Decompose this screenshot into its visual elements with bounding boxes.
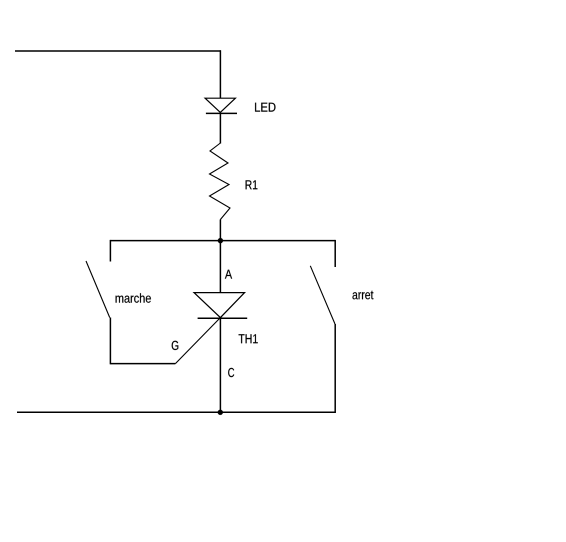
- wire gate horizontal: [110, 363, 175, 365]
- wire mid rail: [110, 240, 335, 242]
- wire mid node to thyristor anode: [219, 241, 221, 293]
- node A label: [225, 270, 232, 279]
- label R1: [246, 180, 258, 189]
- wire top rail: [15, 50, 221, 52]
- wire marche bottom vertical: [109, 318, 111, 365]
- node mid junction: [218, 238, 223, 243]
- label LED: [255, 103, 275, 112]
- wire thyristor gate diagonal: [175, 318, 220, 364]
- wire mid rail right drop: [334, 240, 336, 267]
- wire arret bottom vertical: [334, 324, 336, 413]
- wire LED cathode to R1: [219, 113, 221, 143]
- wire thyristor cathode: [219, 318, 221, 412]
- thyristor TH1: [194, 293, 247, 319]
- label G: [172, 341, 179, 350]
- resistor R1: [210, 143, 231, 220]
- wire mid rail left drop: [109, 240, 111, 262]
- label arret: [353, 291, 374, 300]
- switch marche blade: [86, 261, 110, 318]
- wire R1 to mid node: [219, 220, 221, 242]
- switch arret blade: [310, 266, 335, 324]
- LED diode: [205, 98, 237, 113]
- wire top vertical to LED anode: [219, 50, 221, 98]
- label TH1: [239, 334, 258, 343]
- label C: [228, 368, 234, 377]
- wire bottom rail: [17, 411, 335, 413]
- node bottom junction: [218, 410, 223, 415]
- label marche: [116, 293, 151, 303]
